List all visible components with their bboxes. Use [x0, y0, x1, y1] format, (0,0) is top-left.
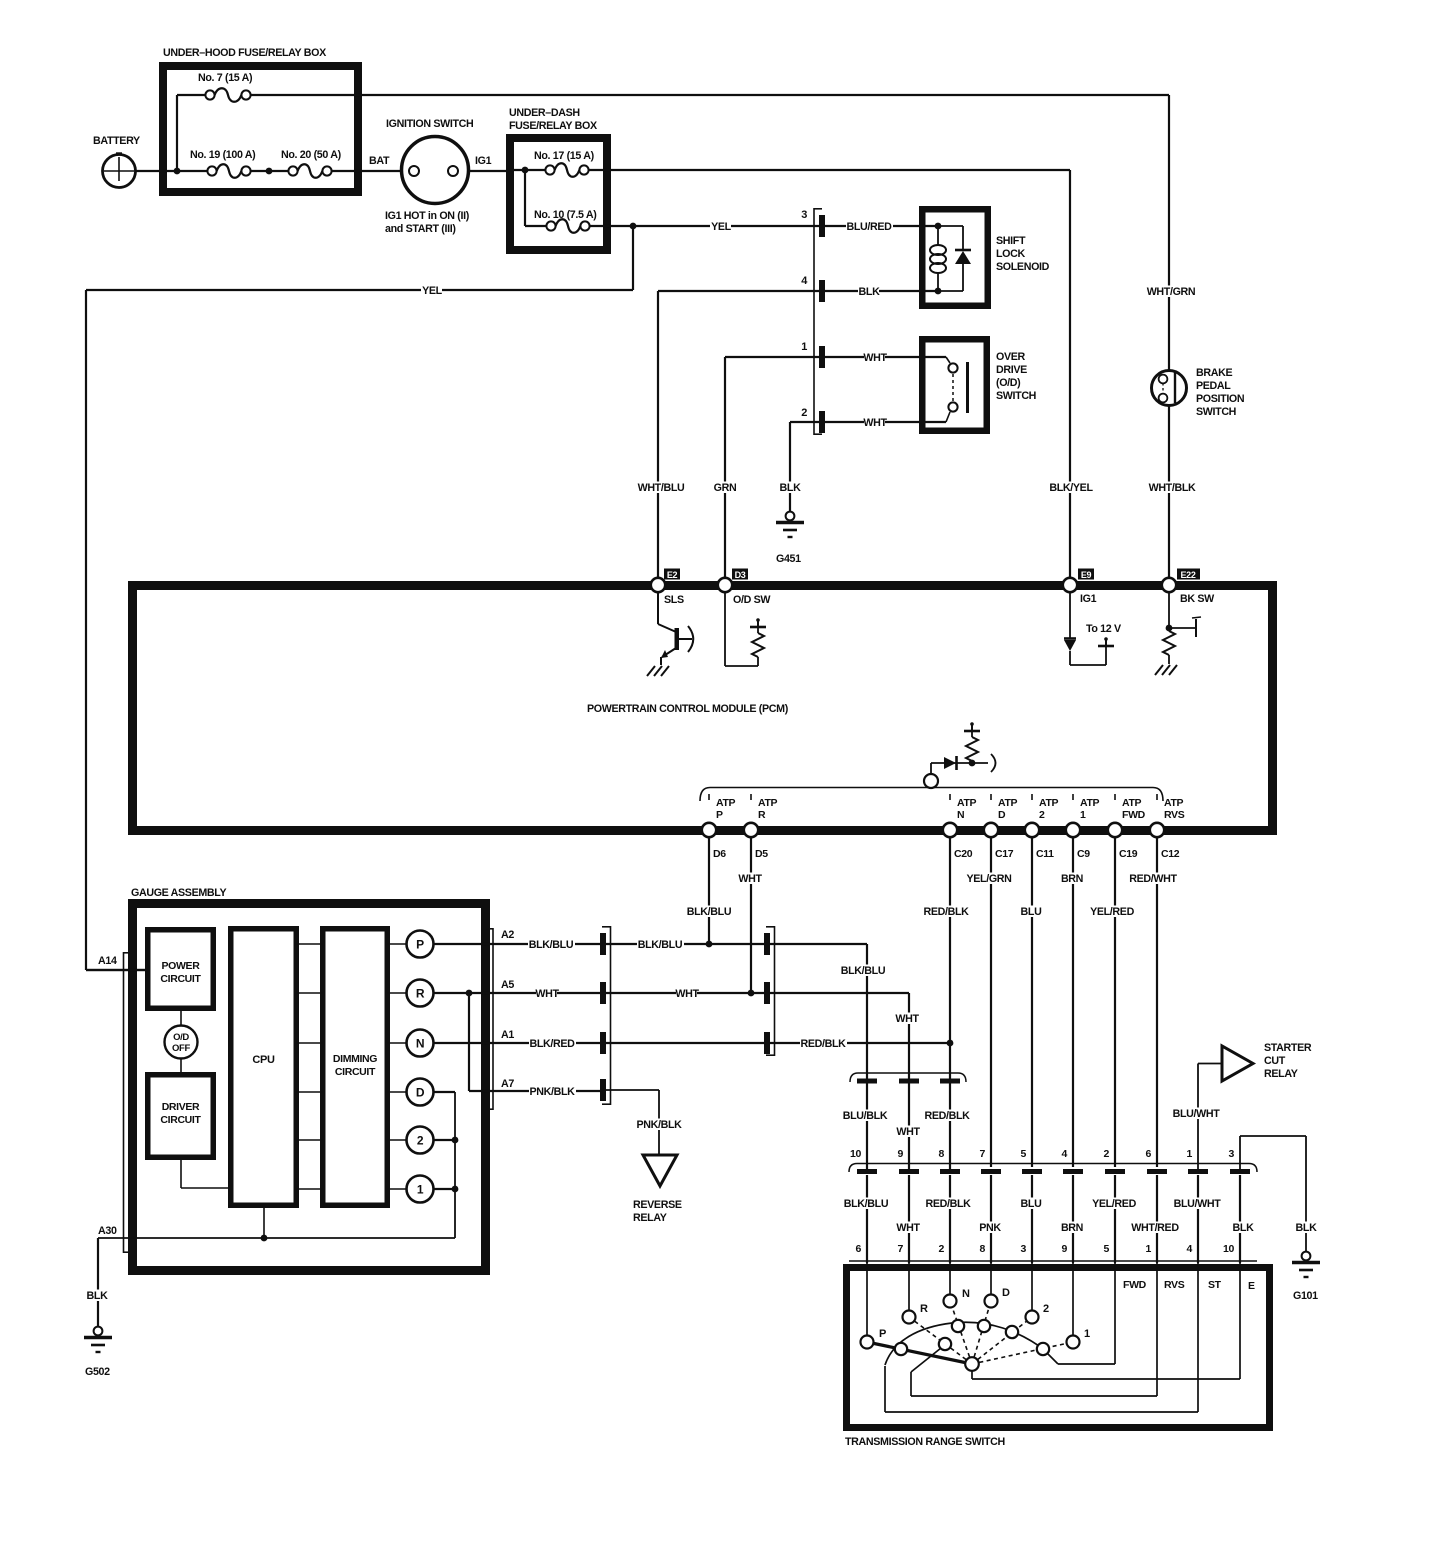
brake pedal position switch: [1152, 371, 1187, 406]
svg-text:RED/BLK: RED/BLK: [800, 1038, 846, 1050]
svg-text:A30: A30: [98, 1225, 117, 1237]
wire P row to A2: [434, 943, 601, 945]
svg-text:8: 8: [980, 1243, 986, 1255]
wire driver to CPU: [181, 1160, 231, 1188]
connector pin numbers (switch side): [856, 1243, 1235, 1255]
svg-text:YEL/RED: YEL/RED: [1090, 906, 1135, 918]
junction under-dash feed: [522, 167, 529, 174]
svg-text:1: 1: [1084, 1328, 1090, 1340]
wire CPU-dimming row 6: [296, 1188, 323, 1190]
label WHT (pin2): [864, 417, 885, 429]
wire RED/BLK right section: [770, 1043, 950, 1169]
wire D5 down (WHT): [750, 837, 752, 993]
svg-text:RELAY: RELAY: [1264, 1068, 1298, 1080]
svg-text:RELAY: RELAY: [633, 1212, 667, 1224]
wiper arm (P position): [867, 1342, 972, 1364]
svg-text:BRN: BRN: [1061, 1222, 1083, 1234]
wire battery to under-hood box: [136, 170, 164, 172]
resistor (E22 input): [1163, 592, 1201, 664]
label BRN (sw): [1061, 1222, 1082, 1234]
wire YEL to shift-lock connector pin 3: [633, 225, 819, 227]
svg-text:PEDAL: PEDAL: [1196, 380, 1231, 392]
svg-text:FWD: FWD: [1122, 809, 1146, 821]
svg-text:YEL/GRN: YEL/GRN: [966, 873, 1011, 885]
svg-text:7: 7: [898, 1243, 904, 1255]
wire N row to A1: [434, 1042, 601, 1044]
svg-text:R: R: [920, 1303, 928, 1315]
svg-text:E: E: [1248, 1280, 1255, 1292]
label WHT/BLU: [638, 482, 685, 494]
svg-text:REVERSE: REVERSE: [633, 1199, 682, 1211]
svg-text:BLK/RED: BLK/RED: [529, 1038, 575, 1050]
svg-text:(O/D): (O/D): [996, 377, 1021, 389]
terminal E9: [1063, 569, 1097, 606]
label BLK (G101 lead): [1295, 1222, 1316, 1234]
wire D/2/1 bus down to A30: [98, 1092, 455, 1238]
svg-text:D: D: [416, 1086, 425, 1100]
over drive switch box: [922, 339, 987, 431]
svg-text:ST: ST: [1208, 1279, 1222, 1291]
svg-text:WHT/BLU: WHT/BLU: [638, 482, 685, 494]
svg-text:WHT: WHT: [896, 1126, 920, 1138]
junction pull-up: [969, 760, 976, 767]
svg-text:E22: E22: [1181, 570, 1196, 580]
junction solenoid bottom: [935, 288, 942, 295]
wiper position dashed lines: [867, 1301, 1073, 1364]
terminal E2: [651, 569, 684, 607]
wire branch up to fuse 7: [176, 95, 178, 171]
svg-text:PNK: PNK: [979, 1222, 1001, 1234]
svg-text:8: 8: [939, 1148, 945, 1160]
label GRN: [714, 482, 735, 494]
transistor Q (SLS driver): [658, 592, 693, 665]
wire A7 row: [469, 1090, 600, 1092]
connector bar row y1043: [600, 1032, 606, 1054]
label WHT (sw): [897, 1222, 918, 1234]
svg-text:DRIVER: DRIVER: [162, 1101, 200, 1113]
svg-text:WHT/GRN: WHT/GRN: [1147, 286, 1196, 298]
terminal C19 (ATP FWD): [1108, 794, 1146, 860]
wire ST column to wiper arc: [885, 1263, 1198, 1412]
svg-text:WHT: WHT: [738, 873, 762, 885]
terminal C11 (ATP 2): [1025, 794, 1059, 860]
label OVER DRIVE (O/D) SWITCH: [996, 351, 1036, 402]
label WHT (mid): [676, 988, 697, 1000]
label BLK (sw): [1232, 1222, 1253, 1234]
svg-text:and START (III): and START (III): [385, 223, 456, 235]
range switch entry line: [849, 1260, 1257, 1262]
svg-text:BATTERY: BATTERY: [93, 135, 140, 147]
svg-text:WHT: WHT: [675, 988, 699, 1000]
O/D OFF indicator: [165, 1011, 198, 1075]
svg-text:SHIFT: SHIFT: [996, 235, 1026, 247]
svg-text:UNDER–DASH: UNDER–DASH: [509, 107, 580, 119]
svg-text:GRN: GRN: [714, 482, 737, 494]
label WHT (pin1): [864, 352, 885, 364]
svg-text:RVS: RVS: [1164, 809, 1185, 821]
label BRAKE PEDAL POSITION SWITCH: [1196, 367, 1244, 418]
wire R row to A5: [434, 992, 601, 994]
svg-text:3: 3: [1021, 1243, 1027, 1255]
pull-up network (resistor + diode): [931, 722, 996, 775]
label PNK/BLK (A7): [529, 1086, 576, 1098]
svg-text:BLK/BLU: BLK/BLU: [844, 1198, 889, 1210]
svg-text:DRIVE: DRIVE: [996, 364, 1027, 376]
svg-text:BAT: BAT: [369, 155, 390, 167]
svg-text:WHT: WHT: [863, 417, 887, 429]
wire into fuse 17: [510, 169, 545, 171]
svg-text:C19: C19: [1119, 848, 1138, 860]
svg-text:BRAKE: BRAKE: [1196, 367, 1232, 379]
svg-text:A5: A5: [501, 979, 514, 991]
svg-text:FUSE/RELAY BOX: FUSE/RELAY BOX: [509, 120, 598, 132]
wire dimming to indicator row 5: [387, 1139, 407, 1141]
wire C9 down (BRN): [1072, 837, 1074, 1167]
label BLK (solenoid return): [858, 286, 879, 298]
svg-text:BLU: BLU: [1021, 906, 1043, 918]
label BLK/YEL: [1048, 482, 1095, 494]
svg-text:ATP: ATP: [1122, 797, 1142, 809]
svg-text:ATP: ATP: [1080, 797, 1100, 809]
connector bracket (4-way): [602, 926, 611, 1105]
svg-text:ATP: ATP: [998, 797, 1018, 809]
wire BLK/BLU between connectors: [606, 943, 764, 945]
wire R tap down to A7 row: [468, 993, 470, 1091]
label YEL (pin 3 feed): [710, 221, 731, 233]
svg-text:4: 4: [1062, 1148, 1068, 1160]
svg-text:WHT: WHT: [863, 352, 887, 364]
wire A30 to ground (BLK): [97, 1238, 99, 1327]
svg-text:ATP: ATP: [716, 797, 736, 809]
svg-text:E2: E2: [667, 570, 678, 580]
wire CPU-dimming row 1: [296, 943, 323, 945]
ground (E2 internal): [647, 666, 655, 676]
svg-text:POWER: POWER: [162, 960, 201, 972]
svg-text:STARTER: STARTER: [1264, 1042, 1312, 1054]
svg-text:BK SW: BK SW: [1180, 593, 1215, 605]
svg-text:P: P: [879, 1328, 886, 1340]
svg-text:2: 2: [1043, 1303, 1049, 1315]
svg-text:No. 20 (50 A): No. 20 (50 A): [281, 149, 342, 161]
wire pin3 to solenoid: [825, 225, 938, 227]
svg-text:PNK/BLK: PNK/BLK: [636, 1119, 682, 1131]
junction C20-RED/BLK: [947, 1040, 954, 1047]
label BLK/BLU (drop): [840, 965, 887, 977]
svg-text:IGNITION SWITCH: IGNITION SWITCH: [386, 118, 473, 130]
wire pin2 left + BLK down to ground: [790, 422, 819, 511]
svg-text:IG1: IG1: [1080, 593, 1097, 605]
label SHIFT LOCK SOLENOID: [996, 235, 1050, 273]
svg-text:No. 17 (15 A): No. 17 (15 A): [534, 150, 595, 162]
svg-text:D6: D6: [713, 848, 726, 860]
ground G451: [776, 512, 804, 565]
svg-text:POSITION: POSITION: [1196, 393, 1244, 405]
terminal E22: [1162, 569, 1215, 606]
svg-text:BLK/BLU: BLK/BLU: [687, 906, 732, 918]
label BLU (C11): [1020, 906, 1041, 918]
range switch contacts P R N D 2 1: [861, 1295, 1080, 1349]
wire pin4 left + WHT/BLU down to PCM E2: [658, 291, 819, 581]
svg-text:2: 2: [1039, 809, 1045, 821]
terminal C12 (ATP RVS): [1150, 794, 1185, 860]
wire D row to bus: [434, 1091, 456, 1093]
svg-text:9: 9: [898, 1148, 904, 1160]
inline connector bars: [857, 1079, 960, 1084]
connector bracket (3-way): [766, 926, 775, 1056]
svg-text:BLU: BLU: [1021, 1198, 1043, 1210]
svg-text:P: P: [416, 938, 424, 952]
pin 2: [801, 407, 825, 433]
svg-text:LOCK: LOCK: [996, 248, 1026, 260]
svg-text:SLS: SLS: [664, 594, 684, 606]
wire fuse 17 to PCM IG1 (BLK/YEL): [589, 170, 1070, 581]
svg-text:BLK/BLU: BLK/BLU: [841, 965, 886, 977]
CPU box: [231, 929, 297, 1206]
label BLK/RED (A1): [529, 1038, 576, 1050]
svg-text:POWERTRAIN CONTROL MODULE (PCM: POWERTRAIN CONTROL MODULE (PCM): [587, 703, 789, 715]
svg-text:CIRCUIT: CIRCUIT: [160, 1114, 201, 1126]
svg-text:BLK: BLK: [859, 286, 881, 298]
wire E column to wiper pivot: [972, 1263, 1240, 1379]
label WHT (below inline): [897, 1126, 918, 1138]
range switch connector bracket: [849, 1164, 1257, 1173]
label YEL/GRN (C17): [966, 873, 1013, 885]
svg-text:BLK/BLU: BLK/BLU: [638, 939, 683, 951]
wire RVS column to wiper arc: [911, 1263, 1157, 1396]
svg-text:6: 6: [856, 1243, 862, 1255]
svg-text:9: 9: [1062, 1243, 1068, 1255]
svg-text:YEL: YEL: [711, 221, 732, 233]
terminal D5 (ATP R): [744, 794, 778, 860]
svg-text:RVS: RVS: [1164, 1279, 1185, 1291]
label BRN (C9): [1061, 873, 1082, 885]
svg-text:10: 10: [850, 1148, 861, 1160]
junction battery feed: [174, 168, 181, 175]
svg-text:C11: C11: [1036, 848, 1054, 860]
connector 2 bar row y944: [764, 933, 770, 955]
svg-text:SOLENOID: SOLENOID: [996, 261, 1050, 273]
label YEL/RED (sw): [1091, 1198, 1138, 1210]
svg-text:A2: A2: [501, 929, 514, 941]
power circuit box: [148, 930, 214, 1009]
connector bar row y944: [600, 933, 606, 955]
svg-text:N: N: [416, 1037, 424, 1051]
wiper pivot: [965, 1357, 979, 1371]
svg-text:TRANSMISSION RANGE SWITCH: TRANSMISSION RANGE SWITCH: [845, 1436, 1005, 1448]
junction solenoid top: [935, 223, 942, 230]
svg-text:YEL/RED: YEL/RED: [1092, 1198, 1137, 1210]
wire CPU to A30 bus: [263, 1208, 265, 1238]
svg-text:RED/BLK: RED/BLK: [924, 1110, 970, 1122]
svg-text:BLK: BLK: [87, 1290, 109, 1302]
svg-text:RED/WHT: RED/WHT: [1129, 873, 1177, 885]
svg-text:10: 10: [1223, 1243, 1234, 1255]
svg-text:BRN: BRN: [1061, 873, 1083, 885]
wire D6 down (BLK/BLU): [708, 837, 710, 944]
gauge indicator D: [407, 1079, 434, 1106]
svg-text:BLK/BLU: BLK/BLU: [529, 939, 574, 951]
svg-text:O/D: O/D: [173, 1032, 189, 1043]
svg-text:R: R: [758, 809, 766, 821]
wire fuse 10 to junction: [590, 225, 633, 227]
wire WHT right section: [770, 993, 909, 1169]
svg-text:OVER: OVER: [996, 351, 1026, 363]
svg-text:YEL: YEL: [422, 285, 443, 297]
fuse No. 17 (15 A): [534, 150, 595, 177]
label BLK/BLU (sw): [843, 1198, 890, 1210]
fuse No. 19 (100 A): [190, 149, 256, 178]
gauge assembly box: [131, 887, 486, 1271]
svg-text:CIRCUIT: CIRCUIT: [160, 973, 201, 985]
gauge indicator 1: [407, 1176, 434, 1203]
fuse No. 10 (7.5 A): [525, 209, 597, 233]
label BLK/BLU (D6): [686, 906, 733, 918]
svg-text:CIRCUIT: CIRCUIT: [335, 1066, 376, 1078]
gauge indicator P: [407, 931, 434, 958]
label BLK/BLU (mid): [637, 939, 684, 951]
terminal D3: [718, 569, 772, 607]
svg-text:P: P: [716, 809, 723, 821]
label RED/BLK (sw): [925, 1198, 972, 1210]
label WHT (D5): [739, 873, 760, 885]
transmission range switch box: [847, 1268, 1270, 1428]
wire dimming to indicator row 2: [387, 992, 407, 994]
wire IG1 to under-dash box: [468, 170, 510, 172]
svg-text:2: 2: [417, 1134, 424, 1148]
gauge indicator N: [407, 1030, 434, 1057]
wire PNK/BLK to reverse relay: [606, 1090, 659, 1155]
pin 4: [801, 275, 825, 302]
svg-text:1: 1: [1187, 1148, 1193, 1160]
svg-text:BLU/BLK: BLU/BLK: [843, 1110, 888, 1122]
diode (E9 input) + To 12 V: [1064, 592, 1122, 665]
svg-text:2: 2: [1104, 1148, 1110, 1160]
svg-text:1: 1: [1080, 809, 1086, 821]
label WHT/BLK: [1149, 482, 1196, 494]
connector bar row y993: [600, 982, 606, 1004]
label BLK (G451 lead): [779, 482, 800, 494]
wire FWD column to wiper arc: [1046, 1263, 1115, 1364]
wire branch down to fuse 10: [524, 170, 526, 226]
svg-text:C20: C20: [954, 848, 973, 860]
wire pin1 to O/D switch: [825, 356, 946, 358]
wire YEL bus down-left to gauge A14: [86, 226, 633, 970]
svg-text:1: 1: [801, 341, 807, 353]
wire brake switch to PCM E22 (WHT/BLK): [1168, 406, 1170, 582]
wire dimming to indicator row 4: [387, 1091, 407, 1093]
wire CPU-dimming row 4: [296, 1091, 323, 1093]
wire pin4 to solenoid: [825, 290, 938, 292]
svg-text:DIMMING: DIMMING: [333, 1053, 377, 1065]
label RED/WHT (C12): [1130, 873, 1177, 885]
label BLU/BLK: [842, 1110, 889, 1122]
terminal D6 (ATP P): [702, 794, 736, 860]
wire A14 into power circuit: [86, 969, 148, 971]
svg-text:UNDER–HOOD FUSE/RELAY BOX: UNDER–HOOD FUSE/RELAY BOX: [163, 47, 327, 59]
svg-text:1: 1: [1146, 1243, 1152, 1255]
label WHT/GRN: [1148, 286, 1195, 298]
svg-text:D3: D3: [735, 570, 746, 580]
svg-text:1: 1: [417, 1183, 424, 1197]
powertrain control module box: [133, 586, 1273, 831]
wire CPU-dimming row 2: [296, 992, 323, 994]
O/D switch contacts: [946, 357, 968, 422]
pin 1: [801, 341, 825, 368]
ATP common bracket: [700, 788, 1163, 802]
connector bar row y1090: [600, 1079, 606, 1101]
svg-text:6: 6: [1146, 1148, 1152, 1160]
wire C20 down (RED/BLK): [949, 837, 951, 1043]
solenoid flyback diode: [938, 226, 971, 291]
svg-text:7: 7: [980, 1148, 986, 1160]
svg-text:CUT: CUT: [1264, 1055, 1286, 1067]
junction D5 on WHT: [748, 990, 755, 997]
svg-text:5: 5: [1104, 1243, 1110, 1255]
svg-text:C17: C17: [995, 848, 1014, 860]
svg-text:No. 7 (15 A): No. 7 (15 A): [198, 72, 253, 84]
label BLK (G502 lead): [86, 1290, 107, 1302]
svg-text:CPU: CPU: [252, 1054, 275, 1066]
connector C (shift-lock / OD switch) bracket: [814, 208, 822, 435]
svg-text:SWITCH: SWITCH: [1196, 406, 1236, 418]
svg-text:BLK: BLK: [780, 482, 802, 494]
wire C17 down (YEL/GRN): [990, 837, 992, 1167]
wire 2 row to bus: [434, 1139, 456, 1141]
wire BAT to ignition switch: [332, 170, 402, 172]
junction 2 row: [452, 1137, 459, 1144]
wire C19 down (YEL/RED): [1114, 837, 1116, 1167]
wire pin1 left + GRN down to PCM D3: [725, 357, 819, 581]
fuse No. 7 (15 A): [177, 72, 253, 102]
svg-text:4: 4: [1187, 1243, 1193, 1255]
junction CPU-A30: [261, 1235, 268, 1242]
svg-text:WHT: WHT: [535, 988, 559, 1000]
wire C11 down (BLU): [1031, 837, 1033, 1167]
svg-text:C12: C12: [1161, 848, 1180, 860]
connector 2 bar row y1043: [764, 1032, 770, 1054]
svg-text:ATP: ATP: [1164, 797, 1184, 809]
wires columns to contacts: [867, 1263, 1073, 1336]
node circle on bracket: [924, 774, 938, 788]
ground (E22 internal): [1155, 665, 1163, 675]
svg-text:E9: E9: [1081, 570, 1092, 580]
wire pin 3 to ground G101: [1240, 1136, 1306, 1252]
svg-text:G502: G502: [85, 1366, 110, 1378]
gauge indicator R: [407, 980, 434, 1007]
driver circuit box: [148, 1075, 214, 1158]
svg-text:O/D SW: O/D SW: [733, 594, 771, 606]
battery: [93, 135, 140, 188]
svg-text:3: 3: [1229, 1148, 1235, 1160]
svg-text:WHT: WHT: [895, 1013, 919, 1025]
wire 1 row to bus: [434, 1188, 456, 1190]
terminal C17 (ATP D): [984, 794, 1018, 860]
svg-text:N: N: [962, 1288, 970, 1300]
label BLK/BLU (A2): [528, 939, 575, 951]
svg-text:SWITCH: SWITCH: [996, 390, 1036, 402]
label YEL/RED (C19): [1089, 906, 1136, 918]
connector pin numbers (PCM side): [850, 1148, 1234, 1160]
wire CPU-dimming row 3: [296, 1042, 323, 1044]
wire dimming to indicator row 1: [387, 943, 407, 945]
svg-text:D: D: [998, 809, 1006, 821]
junction E22 internal: [1166, 625, 1173, 632]
shift lock solenoid box: [922, 209, 988, 306]
svg-text:OFF: OFF: [172, 1043, 190, 1054]
gauge connector bracket (A-side): [124, 952, 132, 1253]
pin 3: [801, 209, 825, 237]
label RED/BLK (below inline): [924, 1110, 971, 1122]
